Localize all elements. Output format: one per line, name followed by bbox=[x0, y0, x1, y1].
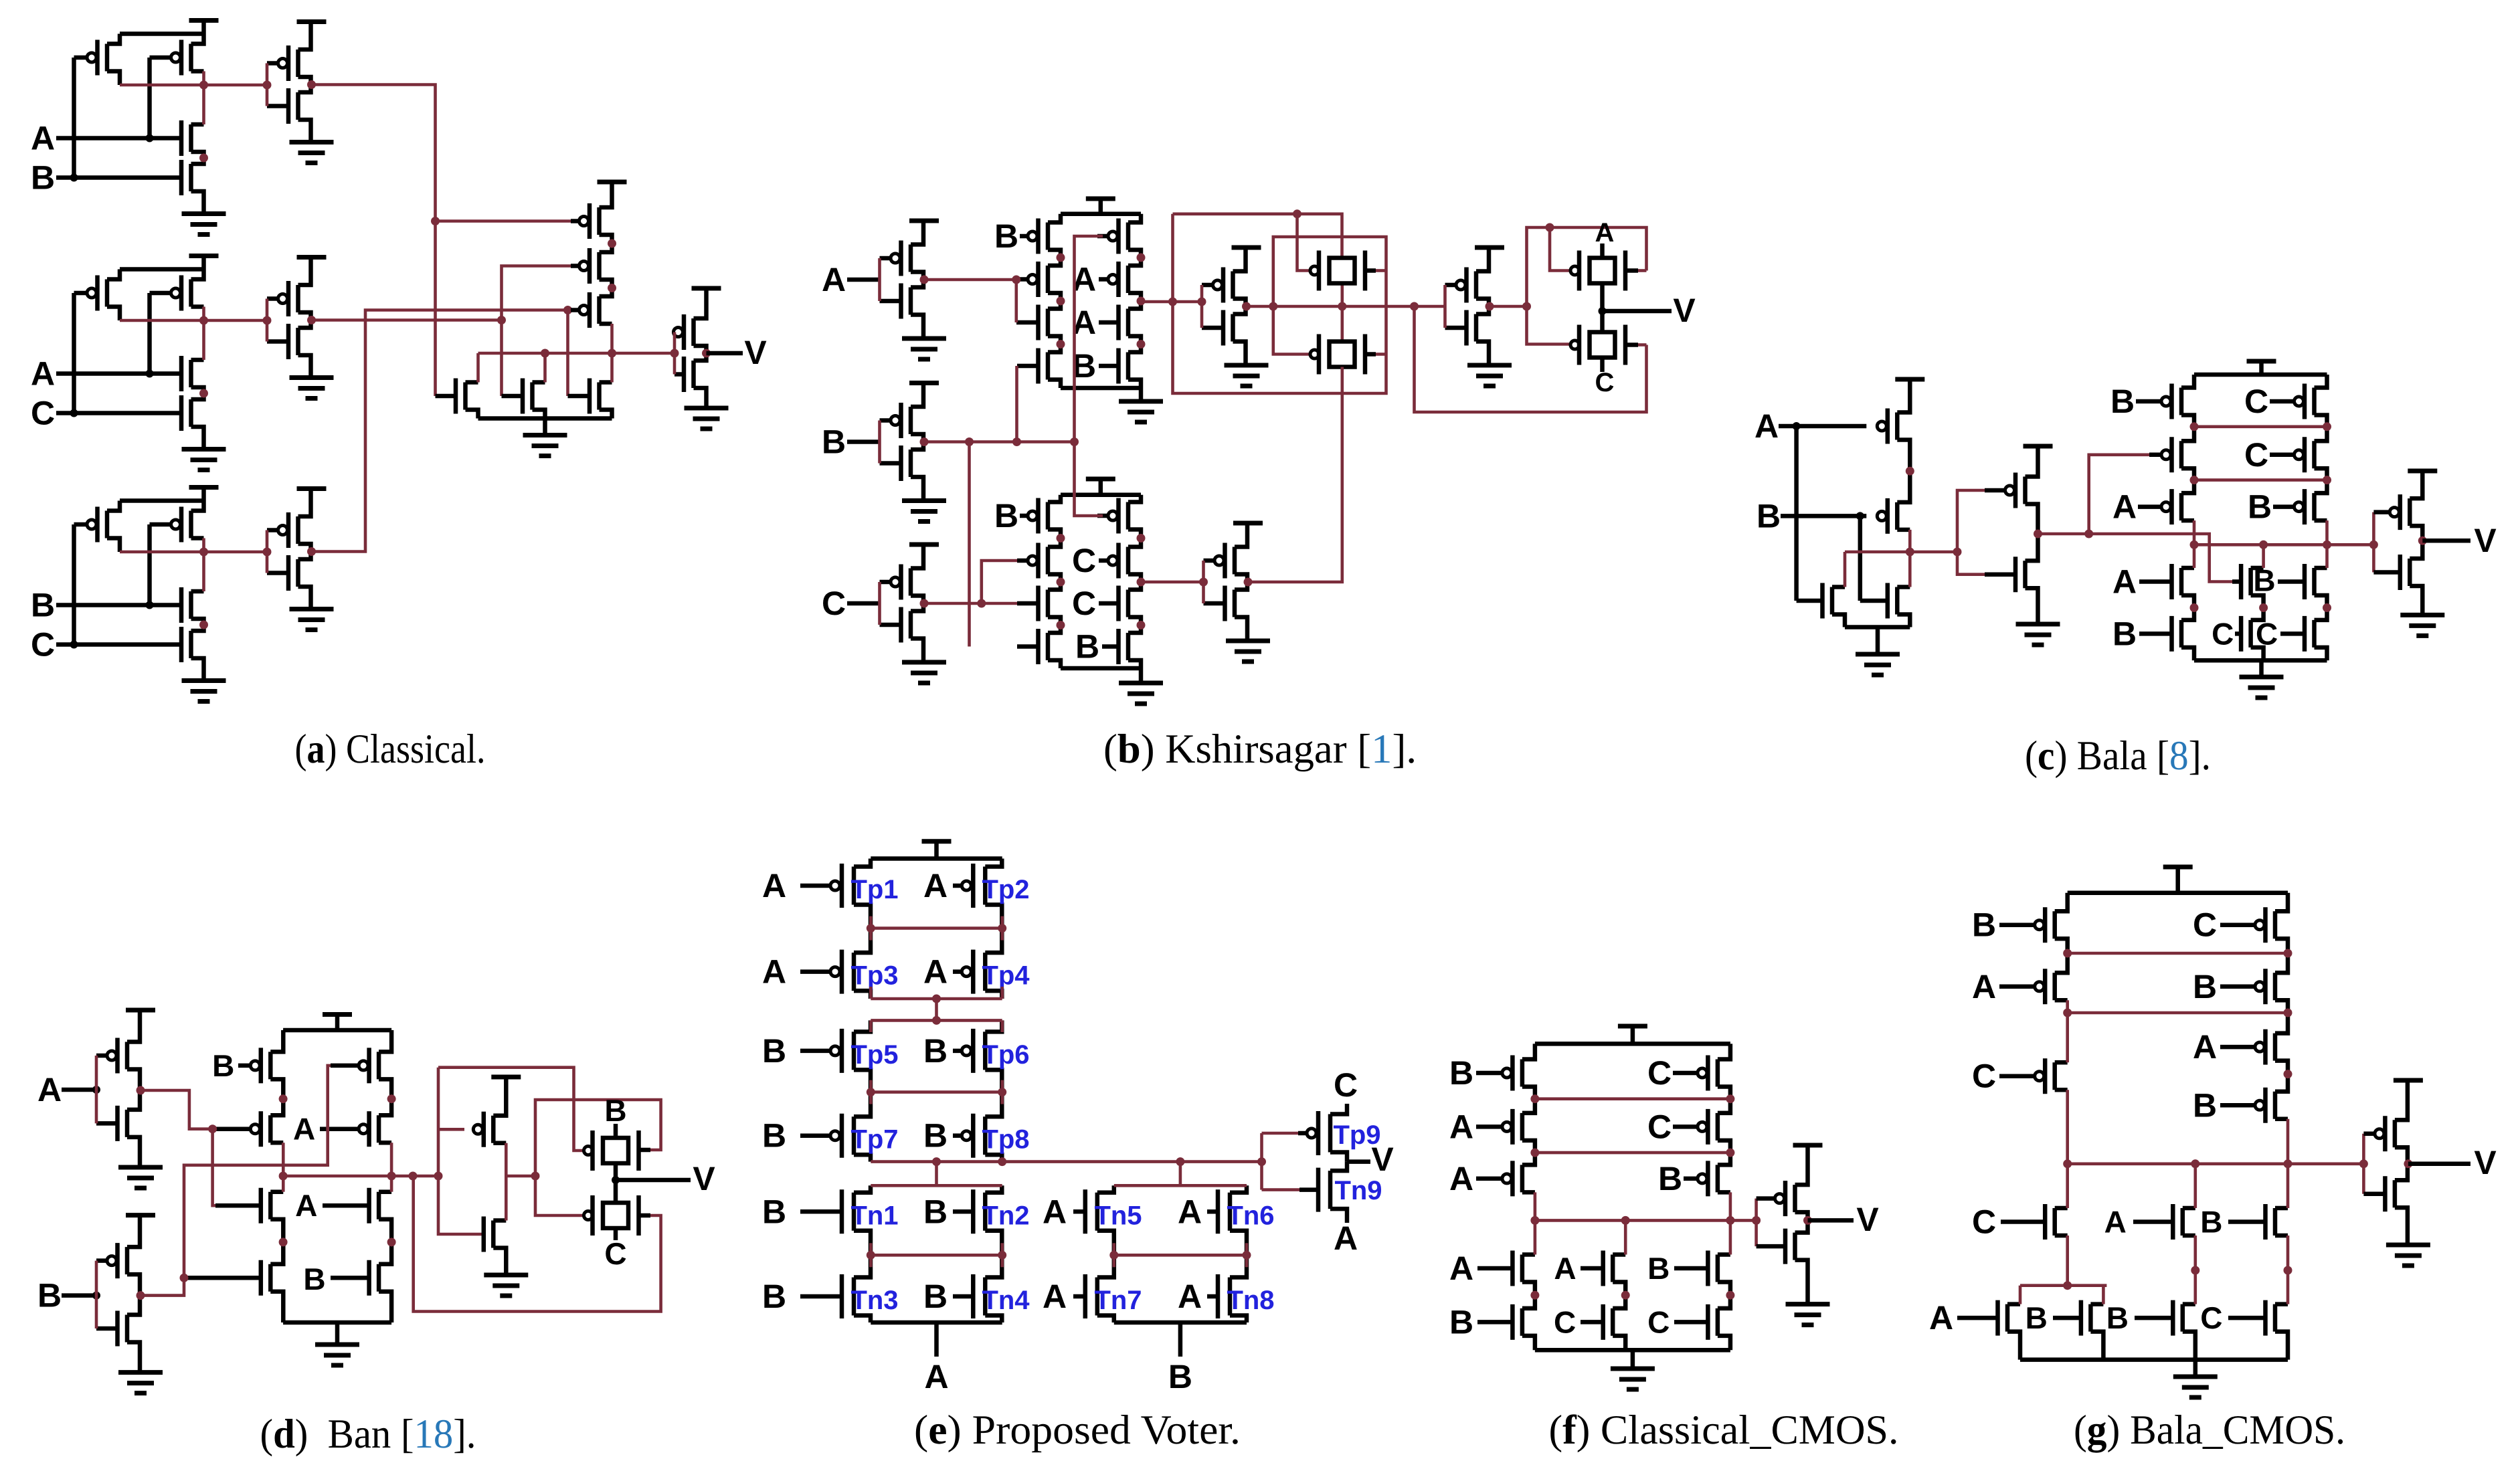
boxA top lead to A bbox=[1600, 243, 1605, 258]
inverter inv2 nmos bbox=[296, 328, 300, 355]
wire pmos-left gate to input C bbox=[72, 524, 76, 645]
power VDD bbox=[201, 256, 206, 270]
inverter inv2 VDD bbox=[297, 255, 327, 260]
t2 pmos bbox=[268, 1115, 273, 1143]
svg-text:B: B bbox=[762, 1032, 786, 1070]
inverter invB output node bbox=[920, 437, 929, 446]
inverter invA gate stub bbox=[878, 258, 881, 301]
inverter mid1 arms bbox=[1233, 248, 1246, 272]
VDD stack bbox=[335, 1015, 340, 1031]
red rail 2 bbox=[2068, 1011, 2288, 1015]
stack2 arms bbox=[1048, 495, 1061, 502]
final arms bbox=[2395, 1080, 2408, 1120]
svg-text:V: V bbox=[1673, 292, 1696, 329]
node PA-PB bbox=[1906, 467, 1914, 476]
inverter mid1 gate stub bbox=[1200, 285, 1204, 328]
svg-text:Tp7: Tp7 bbox=[850, 1125, 898, 1155]
inverter low output node bbox=[1244, 578, 1253, 587]
VDD rail bbox=[1535, 1042, 1730, 1046]
svg-text:V: V bbox=[1371, 1141, 1394, 1178]
inverter inv1 nmos bbox=[296, 92, 300, 120]
block output wire bbox=[120, 551, 267, 554]
svg-text:(b) Kshirsagar [1].: (b) Kshirsagar [1]. bbox=[1103, 726, 1417, 772]
wire pmos-right gate to input A bbox=[147, 293, 152, 374]
V node bbox=[614, 1163, 618, 1203]
inverter invB arms bbox=[127, 1215, 140, 1248]
final inverter arms bbox=[694, 288, 707, 318]
inverter mid2 pmos bbox=[1474, 272, 1479, 299]
mid inverter nmos bbox=[2023, 561, 2028, 588]
stack nodes bbox=[279, 1094, 288, 1103]
svg-text:A: A bbox=[1043, 1193, 1067, 1230]
nmos N3 bbox=[597, 383, 602, 410]
net to PL2 gate bbox=[2089, 455, 2151, 534]
pmos P3 bbox=[597, 296, 602, 324]
ground main bbox=[2259, 660, 2264, 677]
inverter invB ground bbox=[118, 1370, 163, 1375]
P stack arms bbox=[600, 182, 612, 207]
stack2 nodes bbox=[1057, 534, 1065, 543]
svg-text:C: C bbox=[1647, 1108, 1672, 1145]
VDD rail bbox=[120, 267, 204, 272]
ground bbox=[182, 447, 226, 452]
net invB line bbox=[924, 440, 1075, 444]
N arms bbox=[466, 380, 478, 385]
wire to V bbox=[616, 1178, 691, 1183]
inverter invB VDD bbox=[126, 1213, 155, 1217]
transistor Tp9 gate loop bbox=[1260, 1133, 1263, 1190]
svg-text:B: B bbox=[1449, 1303, 1473, 1341]
red rail 2 bbox=[2194, 478, 2327, 482]
svg-text:(e) Proposed Voter.: (e) Proposed Voter. bbox=[914, 1407, 1241, 1453]
svg-text:A: A bbox=[822, 261, 846, 298]
svg-text:Tn4: Tn4 bbox=[982, 1286, 1030, 1315]
inverter inv1 VDD bbox=[297, 19, 327, 24]
pass transistor boxC bbox=[1590, 332, 1615, 358]
inverter mid1 VDD bbox=[1232, 245, 1261, 250]
inverter invC output node bbox=[920, 599, 929, 608]
svg-text:Tn6: Tn6 bbox=[1227, 1201, 1274, 1230]
net invC line bbox=[924, 602, 1017, 605]
inverter invB output node bbox=[137, 1291, 145, 1300]
inverter inv3 arms bbox=[298, 490, 311, 517]
input line A bbox=[62, 1088, 96, 1092]
stack1 arms right bbox=[1128, 214, 1141, 223]
inverter mid2 VDD bbox=[1475, 245, 1504, 250]
right pmos arms bbox=[2315, 375, 2327, 388]
nmos N2 bbox=[530, 383, 535, 410]
svg-text:C: C bbox=[2212, 616, 2234, 651]
net invB to stack1 t4 bbox=[1015, 366, 1018, 442]
stack2 t4 nmos bbox=[1046, 633, 1051, 660]
svg-text:Tn1: Tn1 bbox=[850, 1201, 898, 1230]
final pmos bbox=[2408, 498, 2412, 526]
svg-text:B: B bbox=[1449, 1054, 1473, 1092]
node P1-P2 bbox=[608, 239, 616, 248]
inverter mid1 output node bbox=[1242, 302, 1251, 311]
node between nmos bbox=[199, 621, 208, 629]
Tp9 arms bbox=[1330, 1104, 1347, 1114]
svg-text:C: C bbox=[2244, 383, 2268, 420]
svg-text:B: B bbox=[994, 497, 1018, 534]
svg-text:B: B bbox=[2200, 1205, 2222, 1240]
rail r5-r6 mid bbox=[1114, 1254, 1247, 1257]
output junction bbox=[702, 349, 711, 358]
stack2 output bbox=[1141, 581, 1204, 584]
inverter invC ground bbox=[902, 660, 946, 665]
node A-B2 right bbox=[2284, 1070, 2292, 1078]
stack2 t2 pmos bbox=[1046, 547, 1051, 575]
input line A bbox=[1779, 424, 1866, 429]
stack2 VDD bbox=[1099, 479, 1103, 495]
VDD rail bbox=[283, 1028, 391, 1033]
final inverter stub bbox=[1754, 1199, 1758, 1247]
svg-text:B: B bbox=[212, 1048, 234, 1083]
svg-text:C: C bbox=[2200, 1300, 2222, 1335]
PL2 pmos bbox=[2179, 441, 2184, 468]
svg-text:(g) Bala_CMOS.: (g) Bala_CMOS. bbox=[2074, 1407, 2345, 1453]
svg-text:Tn7: Tn7 bbox=[1094, 1286, 1142, 1315]
svg-text:B: B bbox=[923, 1032, 948, 1070]
transistor Tp9 bbox=[1328, 1114, 1333, 1153]
net boxC right loop bbox=[639, 1213, 651, 1218]
inverter invB stub bbox=[95, 1261, 98, 1328]
svg-text:B: B bbox=[604, 1093, 626, 1128]
net boxA gate bbox=[1550, 227, 1570, 271]
svg-text:(f) Classical_CMOS.: (f) Classical_CMOS. bbox=[1549, 1407, 1899, 1453]
svg-text:C: C bbox=[31, 626, 55, 664]
stack1 ground bbox=[1139, 388, 1144, 401]
final inverter nmos bbox=[691, 361, 696, 388]
svg-text:A: A bbox=[1178, 1193, 1202, 1230]
inverter inv3 nmos bbox=[296, 559, 300, 587]
wire pmos-right gate to input A bbox=[147, 58, 152, 138]
VDD bbox=[1631, 1026, 1635, 1044]
wire to V bbox=[1603, 309, 1672, 314]
NA arms bbox=[1832, 585, 1845, 589]
svg-text:Tn3: Tn3 bbox=[850, 1286, 898, 1315]
pmos-left arms bbox=[107, 270, 120, 280]
net mid2 out branch bbox=[1490, 305, 1527, 308]
svg-text:C: C bbox=[1647, 1054, 1672, 1092]
final pmos bbox=[2393, 1120, 2398, 1147]
final pmos bbox=[1793, 1185, 1797, 1212]
xnor ground bbox=[1876, 627, 1880, 655]
NM1 nmos bbox=[2248, 568, 2253, 595]
inverter inv2 gate stub bbox=[266, 299, 269, 342]
block output wire bbox=[120, 319, 267, 322]
final inverter stub bbox=[2362, 1134, 2365, 1194]
mid out bbox=[506, 1175, 535, 1178]
nmos B bbox=[189, 164, 193, 191]
level1 arms bbox=[2055, 1206, 2068, 1211]
red rail 2 bbox=[1535, 1151, 1730, 1155]
VDD rail bbox=[120, 31, 204, 36]
rail r5 top left bbox=[871, 1184, 1002, 1187]
svg-text:C: C bbox=[1072, 542, 1096, 579]
stub r2-r3 bbox=[935, 999, 938, 1020]
node between nmos bbox=[199, 389, 208, 398]
svg-text:B: B bbox=[762, 1278, 786, 1315]
svg-text:A: A bbox=[295, 1188, 317, 1223]
wire B to nmos gate bbox=[1858, 516, 1863, 601]
VDD rail bbox=[2194, 373, 2327, 377]
output line bbox=[2194, 543, 2373, 547]
N source rail bbox=[478, 416, 612, 421]
svg-text:Tp6: Tp6 bbox=[982, 1040, 1029, 1070]
inverter inv2 output node bbox=[307, 316, 316, 324]
inverter invC VDD bbox=[909, 543, 939, 547]
mid inverter pmos bbox=[2023, 477, 2028, 504]
net inv2 out bbox=[312, 318, 502, 322]
svg-text:A: A bbox=[1929, 1299, 1953, 1337]
inverter inv1 arms bbox=[298, 23, 311, 50]
wire A to nmos gate bbox=[1794, 426, 1799, 601]
final nmos bbox=[1793, 1233, 1797, 1260]
stack1 nodes bbox=[1057, 254, 1065, 262]
inverter invC pmos bbox=[909, 569, 913, 596]
mid inv ground bbox=[484, 1273, 528, 1278]
VDD rail bbox=[871, 856, 1002, 861]
mid inverter gate routing bbox=[1957, 490, 1986, 552]
box1 right lead bbox=[1365, 268, 1376, 273]
mid inv pmos bbox=[491, 1116, 496, 1143]
pmos P2 bbox=[597, 252, 602, 280]
net invC to stack2 t2 bbox=[982, 561, 1017, 603]
svg-text:B: B bbox=[1658, 1160, 1682, 1197]
inverter inv3 pmos bbox=[296, 516, 300, 544]
svg-text:C: C bbox=[31, 395, 55, 432]
boxC bottom lead bbox=[614, 1228, 618, 1240]
svg-text:C: C bbox=[1554, 1304, 1576, 1339]
left pmos arms bbox=[1522, 1044, 1535, 1059]
input line B bbox=[56, 175, 181, 180]
boxB top lead bbox=[614, 1124, 618, 1138]
boxA right lead bbox=[1625, 268, 1638, 273]
svg-text:Tp2: Tp2 bbox=[982, 875, 1029, 904]
parallel pair rail bbox=[2020, 1284, 2106, 1287]
svg-text:(a) Classical.: (a) Classical. bbox=[295, 726, 486, 772]
net mid1 out bbox=[1247, 305, 1445, 308]
inverter mid2 nmos bbox=[1474, 314, 1479, 342]
final nmos bbox=[2408, 559, 2412, 586]
pass transistor boxC bbox=[603, 1203, 628, 1228]
nmos arms bbox=[1522, 1252, 1535, 1257]
svg-text:A: A bbox=[2193, 1028, 2217, 1066]
stem to B bbox=[1178, 1322, 1183, 1357]
right pmos arms bbox=[2275, 893, 2288, 912]
svg-text:B: B bbox=[2193, 1086, 2217, 1124]
final inverter stub bbox=[2372, 512, 2375, 573]
svg-text:C: C bbox=[604, 1236, 626, 1271]
svg-text:A: A bbox=[1449, 1160, 1473, 1197]
pmos-left arms bbox=[107, 34, 120, 44]
svg-text:B: B bbox=[2026, 1300, 2048, 1335]
gnd rail bbox=[1535, 1348, 1730, 1353]
svg-text:B: B bbox=[1168, 1358, 1192, 1395]
wire to V bbox=[2408, 1162, 2470, 1167]
final ground bbox=[2400, 613, 2444, 617]
inverter invA arms bbox=[127, 1010, 140, 1042]
svg-text:A: A bbox=[762, 953, 786, 991]
net mid2 out to boxC gate bbox=[1527, 306, 1570, 344]
stack1 t3 nmos bbox=[1046, 309, 1051, 336]
net mid1-node to boxC right bbox=[1415, 306, 1647, 412]
inverter invA output node bbox=[137, 1086, 145, 1095]
svg-text:B: B bbox=[822, 423, 846, 461]
gnd rail bbox=[283, 1320, 391, 1325]
transistor Tn9 bbox=[1328, 1171, 1333, 1209]
rail r6 bottom left bbox=[871, 1320, 1002, 1325]
svg-text:(c) Bala [8].: (c) Bala [8]. bbox=[2025, 733, 2211, 779]
inverter invA VDD bbox=[909, 219, 939, 223]
wire pmos-left gate to input C bbox=[72, 293, 76, 413]
VDD rail bbox=[2068, 890, 2288, 895]
rail r5 top mid bbox=[1114, 1184, 1247, 1187]
svg-text:A: A bbox=[1043, 1278, 1067, 1315]
xnor source rail bbox=[1845, 625, 1910, 629]
svg-text:A: A bbox=[1554, 1251, 1576, 1286]
inverter invB arms bbox=[911, 384, 923, 407]
inverter inv2 ground bbox=[290, 375, 334, 380]
svg-text:A: A bbox=[1334, 1219, 1358, 1257]
rail r1-r2 bbox=[871, 926, 1002, 930]
nmos NB bbox=[1895, 587, 1900, 615]
inverter inv2 arms bbox=[298, 258, 311, 286]
left pmos arms bbox=[2055, 893, 2068, 912]
wire to V bbox=[1347, 1159, 1370, 1164]
mid inv arms bbox=[493, 1077, 506, 1116]
right pmos arms bbox=[1718, 1044, 1730, 1059]
rail r5-r6 left bbox=[871, 1254, 1002, 1257]
final inverter pmos bbox=[691, 318, 696, 346]
ground output stage bbox=[543, 419, 547, 435]
rail r6 bottom mid bbox=[1114, 1320, 1247, 1325]
svg-text:A: A bbox=[31, 355, 55, 393]
inverter invB nmos bbox=[125, 1315, 130, 1343]
inverter invB VDD bbox=[909, 381, 939, 385]
ground bbox=[2193, 1360, 2198, 1377]
red rail 1 bbox=[2068, 952, 2288, 955]
output V node bbox=[1600, 284, 1605, 332]
svg-text:B: B bbox=[762, 1193, 786, 1230]
final arms bbox=[1795, 1145, 1808, 1185]
nmos arms bbox=[2181, 566, 2194, 571]
node P2-P3 bbox=[608, 284, 616, 292]
net box2 bottom to inv-low out bbox=[1248, 367, 1342, 583]
pmos right bbox=[189, 511, 193, 538]
block output wire bbox=[120, 84, 267, 87]
svg-text:B: B bbox=[994, 217, 1018, 255]
inverter low VDD bbox=[1233, 521, 1263, 526]
inverter mid1 ground bbox=[1225, 363, 1269, 368]
svg-text:Tn5: Tn5 bbox=[1094, 1201, 1142, 1230]
final nmos bbox=[2393, 1180, 2398, 1207]
power VDD output stage bbox=[598, 180, 627, 185]
output node bbox=[2404, 1159, 2412, 1168]
ground stack bbox=[335, 1322, 340, 1345]
wire to V bbox=[1808, 1218, 1854, 1223]
svg-text:A: A bbox=[2112, 488, 2137, 526]
stack2 t3 nmos bbox=[1046, 590, 1051, 617]
pass transistor boxA bbox=[1590, 258, 1615, 284]
svg-text:C: C bbox=[2244, 436, 2268, 474]
stack1 VDD rail bbox=[1061, 212, 1141, 217]
inverter low ground bbox=[1226, 639, 1270, 644]
inverter low arms bbox=[1235, 524, 1247, 547]
inverter invA pmos bbox=[909, 245, 913, 272]
pass transistor box1 bbox=[1330, 258, 1355, 284]
svg-text:B: B bbox=[1075, 628, 1099, 666]
stack1 arms left bbox=[1048, 214, 1061, 223]
svg-text:A: A bbox=[762, 867, 786, 904]
stack arms left bbox=[270, 1030, 283, 1052]
net stack1-branch loop bbox=[1173, 214, 1386, 393]
xnor output line bbox=[1845, 551, 1957, 554]
final VDD bbox=[2394, 1078, 2423, 1083]
PA arms bbox=[1897, 379, 1910, 413]
inverter inv3 output node bbox=[307, 547, 316, 556]
svg-text:C: C bbox=[1647, 1304, 1670, 1339]
input line A bbox=[56, 371, 181, 376]
svg-text:A: A bbox=[1754, 407, 1779, 445]
pmos right bbox=[189, 44, 193, 72]
inverter invA VDD bbox=[126, 1008, 155, 1013]
inverter invA stub bbox=[95, 1056, 98, 1123]
net invB to stack1 t5 bbox=[1075, 236, 1103, 442]
svg-text:B: B bbox=[2193, 968, 2217, 1005]
mid inv arms bbox=[2026, 446, 2038, 477]
mid inverter routing bbox=[438, 1068, 484, 1234]
svg-text:B: B bbox=[31, 159, 55, 197]
stem to A bbox=[934, 1322, 939, 1357]
main output line bbox=[871, 1160, 1261, 1163]
svg-text:V: V bbox=[744, 334, 767, 371]
net box1 gate bbox=[1297, 214, 1310, 271]
output node bbox=[1803, 1216, 1812, 1225]
VDD rail bbox=[120, 498, 204, 503]
svg-text:B: B bbox=[303, 1262, 325, 1296]
wire pmos-left gate to input B bbox=[72, 58, 76, 178]
wire to V bbox=[2422, 538, 2470, 543]
svg-text:C: C bbox=[1972, 1203, 1996, 1241]
nmos A bbox=[189, 360, 193, 387]
wire to V bbox=[707, 351, 743, 356]
stage1 output line bbox=[283, 1175, 438, 1178]
red rail 1 bbox=[2194, 425, 2327, 428]
final VDD bbox=[692, 286, 721, 291]
net mid1 out to box2 gate bbox=[1273, 306, 1310, 355]
final ground bbox=[685, 406, 729, 411]
svg-text:C: C bbox=[1072, 585, 1096, 622]
input line B bbox=[62, 1293, 96, 1298]
stub main-mid bbox=[1179, 1162, 1182, 1186]
VDD bbox=[934, 842, 939, 859]
svg-text:C: C bbox=[1334, 1066, 1358, 1104]
input line C bbox=[56, 642, 181, 647]
nmos C bbox=[189, 631, 193, 658]
svg-text:V: V bbox=[693, 1160, 715, 1197]
svg-text:B: B bbox=[1972, 906, 1996, 944]
inverter invC gate stub bbox=[878, 582, 881, 625]
svg-text:A: A bbox=[1449, 1250, 1473, 1287]
inverter mid2 gate stub bbox=[1443, 285, 1447, 328]
net top line to box1 bbox=[1173, 214, 1342, 257]
svg-text:A: A bbox=[923, 867, 948, 904]
input line A bbox=[56, 136, 181, 140]
inverter mid2 ground bbox=[1467, 363, 1512, 368]
inverter inv1 gate stub bbox=[266, 64, 269, 106]
